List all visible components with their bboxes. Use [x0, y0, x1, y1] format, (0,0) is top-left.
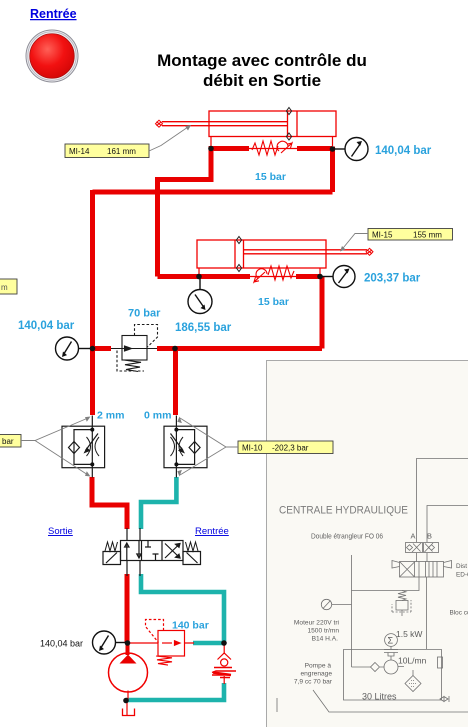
scan frame line B — [427, 506, 468, 543]
scan tank notch — [438, 657, 443, 668]
wire cyl1 crossover left — [211, 146, 249, 151]
svg-text:140 bar: 140 bar — [172, 620, 209, 632]
svg-text:Dist: Dist — [456, 563, 467, 570]
teal return lines — [126, 477, 224, 700]
scan pump — [384, 660, 398, 674]
svg-text:Sortie: Sortie — [48, 526, 73, 537]
pump — [109, 653, 148, 692]
leader MI-10 — [180, 418, 238, 475]
scan line P down-left — [352, 555, 420, 667]
svg-text:MI-15: MI-15 — [372, 231, 393, 240]
tank symbol — [123, 709, 135, 716]
pressure reducing valve 70bar — [111, 325, 158, 372]
wire relief tail to return — [193, 641, 224, 646]
YELLOW LABELS — [0, 144, 453, 454]
scan relief body — [396, 601, 408, 611]
scan solenoid left — [392, 561, 400, 569]
label partial top-left — [0, 279, 17, 294]
check valve on return — [212, 641, 236, 684]
wire left valve to P port — [92, 477, 127, 529]
svg-text:-202,3 bar: -202,3 bar — [272, 444, 309, 453]
flow control valve right (0mm) — [164, 416, 207, 478]
svg-text:10L/mn: 10L/mn — [398, 656, 427, 666]
svg-text:186,55 bar: 186,55 bar — [175, 322, 232, 334]
leader MI-14 — [149, 127, 188, 151]
scan throttle A — [406, 543, 423, 553]
THICK PIPES — [92, 146, 333, 655]
wire relief140 outlet — [147, 642, 194, 644]
svg-text:CENTRALE HYDRAULIQUE: CENTRALE HYDRAULIQUE — [279, 505, 408, 517]
cyl1 position diamonds — [286, 108, 291, 141]
gauge 186,55 bar — [188, 277, 212, 314]
node cyl2 cap — [317, 274, 323, 280]
cyl1 rod end symbol — [156, 120, 163, 127]
leader lines — [21, 127, 368, 475]
svg-text:MI-14: MI-14 — [69, 147, 90, 156]
directional valve 4/3 — [103, 528, 201, 576]
wire relief140 inlet — [129, 642, 147, 644]
svg-text:Moteur 220V tri: Moteur 220V tri — [294, 620, 340, 627]
svg-text:Montage avec contrôle du: Montage avec contrôle du — [157, 51, 367, 70]
cyl2 position diamonds — [236, 237, 241, 272]
wire P port down to pump node — [125, 574, 130, 643]
scan frame bottom — [277, 690, 468, 712]
relief valve crossover1 — [252, 141, 292, 155]
wire cyl2 crossover left — [158, 274, 251, 279]
svg-text:Rentrée: Rentrée — [195, 526, 229, 537]
relief valve crossover2 — [254, 266, 294, 282]
label MI-10 — [238, 441, 333, 454]
node cyl1 cap — [330, 146, 336, 152]
label MI-14 — [65, 144, 149, 158]
wire right branch down — [173, 349, 178, 416]
node reducer outlet branch — [172, 346, 178, 352]
svg-text:2 mm: 2 mm — [97, 410, 124, 422]
cyl2 port stubs — [199, 268, 320, 274]
svg-text:155 mm: 155 mm — [413, 231, 442, 240]
end boxes — [103, 552, 201, 565]
node cyl1 rod — [208, 146, 214, 152]
svg-text:203,37 bar: 203,37 bar — [364, 273, 421, 285]
scanned datasheet background — [266, 360, 468, 727]
springs — [105, 542, 198, 551]
svg-text:Double étrangleur FO 06: Double étrangleur FO 06 — [311, 532, 383, 541]
svg-text:1500 tr/mn: 1500 tr/mn — [307, 628, 339, 635]
gauge cyl1 140,04 bar — [333, 138, 368, 161]
svg-text:Pompe à: Pompe à — [305, 663, 332, 670]
pump triangle — [120, 655, 137, 664]
cyl1 port stubs — [211, 137, 333, 147]
svg-text:15 bar: 15 bar — [255, 171, 286, 183]
svg-text:140,04 bar: 140,04 bar — [375, 145, 432, 157]
wire T port to return riser — [126, 574, 224, 700]
box3 crossed arrows — [165, 544, 180, 559]
node dots — [90, 146, 336, 704]
svg-text:161 mm: 161 mm — [107, 147, 136, 156]
scan tank — [344, 650, 442, 701]
leader bar label — [21, 418, 88, 475]
svg-text:ED-6: ED-6 — [456, 572, 468, 579]
wire cyl1 crossover right — [297, 146, 333, 151]
svg-text:140,04 bar: 140,04 bar — [40, 639, 83, 649]
scan throttle B — [424, 543, 439, 553]
svg-text:B: B — [427, 532, 432, 541]
scan suction line — [352, 666, 372, 668]
scan suction check diamond — [371, 663, 380, 672]
wire pump node to triangle — [126, 641, 130, 655]
wire left main riser — [90, 190, 95, 415]
wire reducer outlet — [157, 346, 322, 351]
svg-text:Bloc co: Bloc co — [450, 610, 468, 617]
svg-text:15 bar: 15 bar — [258, 296, 289, 308]
wire cyl2 crossover right — [296, 274, 320, 279]
wire tank stub — [126, 700, 128, 715]
scan motor — [385, 634, 398, 647]
svg-text:Rentrée: Rentrée — [30, 7, 77, 21]
cylinder MI-15 — [197, 240, 367, 268]
svg-text:engrenage: engrenage — [300, 671, 332, 678]
red pushbutton — [26, 30, 78, 82]
box2 blocked center — [145, 541, 159, 561]
scan pump-filter link — [380, 667, 413, 677]
svg-text:1.5 kW: 1.5 kW — [396, 629, 422, 639]
svg-text:m: m — [1, 283, 8, 292]
node cyl2 gauge — [196, 274, 202, 280]
scan drain bowtie — [440, 696, 449, 702]
svg-text:30 Litres: 30 Litres — [362, 692, 397, 702]
gauge pump 140,04 bar — [93, 631, 127, 654]
svg-text:MI-10: MI-10 — [242, 444, 263, 453]
svg-text:B14 H.A.: B14 H.A. — [312, 636, 339, 643]
scan relief dashed box — [392, 600, 411, 612]
wire crossover2 thin — [250, 276, 296, 278]
svg-text:bar: bar — [2, 437, 14, 446]
wire cyl2 down riser — [320, 277, 325, 349]
scan frame line A — [417, 459, 468, 543]
thin red circuit lines — [127, 137, 333, 716]
cylinder MI-14 — [162, 111, 336, 137]
node reducer inlet — [90, 346, 96, 352]
scan relief spring — [398, 591, 406, 601]
gauge mid 140,04 bar — [56, 337, 92, 360]
scan solenoid right — [444, 561, 452, 569]
relief valve 140bar — [146, 620, 185, 666]
node pump outlet — [125, 640, 131, 646]
svg-text:Σ: Σ — [388, 636, 394, 646]
wire cyl1 cap port down — [330, 147, 335, 193]
scan filter — [405, 676, 421, 692]
wire upper cross line — [93, 190, 333, 195]
cyl2 rod end symbol — [366, 248, 373, 255]
wire crossover1 thin — [249, 148, 297, 150]
box1 parallel arrows — [125, 543, 129, 561]
label MI-15 — [368, 229, 453, 241]
scan breather — [321, 599, 331, 609]
wire pump to tank node — [127, 691, 129, 701]
node tank — [123, 698, 129, 704]
wire reducer inlet — [93, 346, 112, 351]
label partial bottom-left — [0, 435, 21, 448]
svg-text:0 mm: 0 mm — [144, 410, 171, 422]
scan distributor body — [400, 562, 444, 578]
wire cyl1 rod port to riser — [158, 146, 212, 277]
svg-text:70 bar: 70 bar — [128, 308, 161, 320]
scan throttle stubs — [417, 553, 428, 562]
node return — [221, 640, 227, 646]
svg-text:140,04 bar: 140,04 bar — [18, 320, 75, 332]
leader MI-15 — [342, 234, 369, 251]
flow control valve left (2mm) — [62, 416, 105, 478]
gauge cyl2 203,37 bar — [320, 266, 355, 288]
scan breather line — [332, 604, 352, 606]
wire right valve to T port — [141, 477, 176, 529]
svg-text:débit en Sortie: débit en Sortie — [203, 71, 321, 90]
svg-text:7,9 cc 70 bar: 7,9 cc 70 bar — [294, 679, 333, 686]
svg-text:A: A — [411, 532, 416, 541]
scan line T down — [426, 577, 428, 649]
scan border — [267, 361, 468, 727]
